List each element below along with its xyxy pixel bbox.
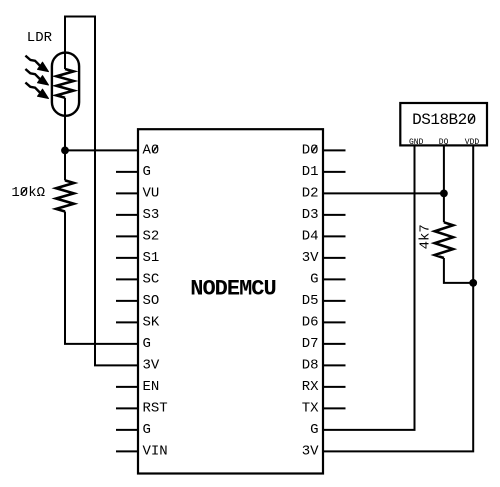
svg-text:SO: SO xyxy=(143,293,160,309)
IC U1 NODEMCU xyxy=(138,129,323,473)
svg-text:D2: D2 xyxy=(302,185,319,201)
wire pin stub D1 right xyxy=(323,171,346,173)
wire pin stub S3 left xyxy=(116,214,138,216)
label DS18B20 xyxy=(412,111,476,129)
wire pin stub G left xyxy=(116,171,138,173)
wire D2 to DQ xyxy=(323,192,444,194)
wire GND to G pin xyxy=(323,145,415,430)
wire pin stub S2 left xyxy=(116,235,138,237)
wire pin stub SO left xyxy=(116,300,138,302)
svg-text:G: G xyxy=(310,271,318,287)
svg-text:10kΩ: 10kΩ xyxy=(11,185,45,201)
wire pin stub RX right xyxy=(323,386,346,388)
svg-text:RST: RST xyxy=(143,400,168,416)
svg-text:D1: D1 xyxy=(302,164,319,180)
wire pin stub VIN left xyxy=(116,450,138,452)
wire pin stub VU left xyxy=(116,192,138,194)
wire pin stub D4 right xyxy=(323,235,346,237)
photoresistor LDR xyxy=(25,53,79,116)
label 10kOhm xyxy=(11,185,45,201)
svg-text:G: G xyxy=(143,164,151,180)
wire xyxy=(64,116,66,180)
svg-text:D0: D0 xyxy=(302,142,319,158)
svg-text:VIN: VIN xyxy=(143,443,168,459)
wire pin stub TX right xyxy=(323,407,346,409)
svg-text:3V: 3V xyxy=(302,250,319,266)
svg-text:GND: GND xyxy=(409,138,424,147)
wire pin stub SC left xyxy=(116,278,138,280)
wire xyxy=(65,149,138,151)
svg-text:S3: S3 xyxy=(143,207,160,223)
svg-text:D3: D3 xyxy=(302,207,319,223)
wire xyxy=(65,17,138,366)
wire pin stub EN left xyxy=(116,386,138,388)
wire xyxy=(65,212,138,344)
svg-text:D4: D4 xyxy=(302,228,319,244)
svg-text:4k7: 4k7 xyxy=(418,224,434,249)
resistor 10k xyxy=(56,180,74,211)
svg-text:SC: SC xyxy=(143,271,160,287)
svg-text:D7: D7 xyxy=(302,336,319,352)
svg-text:A0: A0 xyxy=(143,142,160,158)
svg-text:G: G xyxy=(143,422,151,438)
wire pin stub 3V right xyxy=(323,257,346,259)
wire pin stub D0 right xyxy=(323,149,346,151)
wire pin stub D3 right xyxy=(323,214,346,216)
svg-text:SK: SK xyxy=(143,314,160,330)
node DQ junction xyxy=(440,190,448,198)
wire DQ down xyxy=(443,145,445,222)
wire pin stub G right xyxy=(323,278,346,280)
svg-text:S2: S2 xyxy=(143,228,160,244)
wire pin stub D6 right xyxy=(323,321,346,323)
pin label D0 xyxy=(302,142,319,158)
wire VDD to 3V pin xyxy=(323,145,473,451)
pin label A0 xyxy=(143,142,160,158)
svg-text:D6: D6 xyxy=(302,314,319,330)
wire pin stub SK left xyxy=(116,321,138,323)
svg-text:G: G xyxy=(310,422,318,438)
svg-text:EN: EN xyxy=(143,379,160,395)
wire pin stub D5 right xyxy=(323,300,346,302)
node VDD junction xyxy=(469,279,477,287)
node A0 junction xyxy=(61,147,69,155)
svg-text:G: G xyxy=(143,336,151,352)
wire pin stub D7 right xyxy=(323,343,346,345)
wire pin stub D8 right xyxy=(323,364,346,366)
svg-text:D5: D5 xyxy=(302,293,319,309)
svg-text:3V: 3V xyxy=(302,443,319,459)
wire pin stub S1 left xyxy=(116,257,138,259)
svg-text:NODEMCU: NODEMCU xyxy=(190,277,275,302)
svg-text:3V: 3V xyxy=(143,357,160,373)
svg-text:TX: TX xyxy=(302,400,319,416)
svg-text:VU: VU xyxy=(143,185,160,201)
svg-text:DS18B20: DS18B20 xyxy=(412,111,476,129)
resistor 4k7 xyxy=(435,222,453,258)
svg-text:D8: D8 xyxy=(302,357,319,373)
svg-text:S1: S1 xyxy=(143,250,160,266)
svg-text:LDR: LDR xyxy=(27,30,53,46)
wire pin stub G left xyxy=(116,429,138,431)
wire pin stub RST left xyxy=(116,407,138,409)
svg-text:RX: RX xyxy=(302,379,319,395)
svg-text:VDD: VDD xyxy=(465,138,480,147)
sensor U2 DS18B20 xyxy=(400,103,487,145)
wire 4k7 to VDD xyxy=(444,258,473,283)
